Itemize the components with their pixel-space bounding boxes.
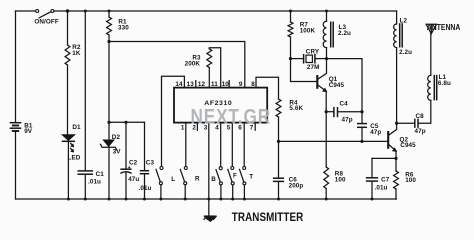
wire: pin 4 to switch SB — [220, 123, 222, 167]
switch SF (Forward) — [228, 167, 234, 200]
svg-text:47u: 47u — [128, 176, 139, 183]
junction dot top rail / R2 — [66, 9, 69, 12]
pin tick 13 — [195, 81, 197, 88]
junction dot bottom rail / C3 — [143, 198, 146, 201]
wire: secondary rail to pin 9 — [109, 42, 245, 88]
svg-text:TRANSMITTER: TRANSMITTER — [232, 211, 304, 224]
junction dot R7 / crystal — [289, 57, 292, 60]
svg-text:13: 13 — [187, 81, 195, 88]
junction dot D2 line / C2C3 wire — [107, 121, 110, 124]
wire: top supply rail left of switch — [16, 10, 36, 12]
wire: pin 5 to switch SF — [231, 123, 233, 167]
junction dot R1 / secondary rail — [107, 40, 110, 43]
svg-text:47p: 47p — [370, 129, 381, 136]
wire: pin 1 to switch SR — [185, 123, 187, 167]
svg-text:L2: L2 — [400, 18, 408, 25]
svg-text:2.2u: 2.2u — [399, 49, 412, 56]
pin 7 stub — [254, 123, 256, 131]
junction dot bottom rail / SB — [219, 198, 222, 201]
inductor L1 6.8u — [428, 75, 437, 101]
switch SR (Right) — [180, 167, 187, 200]
wire: R4 node to Q2 base — [279, 140, 389, 142]
wire: R7 node down to Q1 base — [291, 59, 318, 82]
resistor R7 100K — [288, 11, 293, 59]
resistor R3 200K on pin 12 — [207, 48, 221, 88]
svg-text:330: 330 — [118, 24, 129, 31]
pin 2 stub — [196, 123, 198, 131]
junction dot C2 top — [124, 121, 127, 124]
svg-text:100: 100 — [335, 177, 346, 184]
svg-text:9: 9 — [239, 81, 243, 88]
svg-text:27M: 27M — [307, 64, 320, 71]
junction dot top rail / R7 — [289, 10, 292, 13]
wire: crystal node to C5 — [327, 59, 363, 124]
svg-text:ANTENNA: ANTENNA — [427, 23, 461, 32]
svg-text:6.8u: 6.8u — [438, 80, 451, 87]
switch SB (Back) — [216, 167, 222, 199]
capacitor C6 200p — [273, 141, 284, 199]
junction dot Q2 emitter / R6 / C7 — [394, 157, 397, 160]
svg-text:47p: 47p — [342, 117, 353, 124]
crystal CRY 27M — [291, 54, 327, 64]
svg-text:.01u: .01u — [139, 185, 152, 192]
junction dot R4 / C6 / base wire — [277, 140, 280, 143]
ground symbol — [204, 199, 216, 222]
junction dot Q2 collector / C8 — [395, 122, 398, 125]
capacitor C5 47p — [357, 124, 367, 142]
svg-text:+: + — [128, 165, 131, 171]
svg-text:.01u: .01u — [88, 179, 101, 186]
junction dot crystal / L3 / Q1 collector — [325, 57, 328, 60]
svg-text:11: 11 — [211, 81, 218, 88]
resistor R8 100 — [324, 167, 329, 199]
switch SL (Left) — [156, 167, 163, 200]
pin tick 10 — [228, 81, 230, 88]
svg-text:LED: LED — [68, 155, 81, 162]
svg-text:1: 1 — [181, 124, 185, 131]
junction dot top rail / R1 — [108, 10, 111, 13]
svg-text:B: B — [211, 176, 216, 183]
junction dot C4 / x362 line — [360, 110, 363, 113]
svg-text:D2: D2 — [112, 134, 121, 141]
junction dot bottom rail / ST — [243, 198, 246, 201]
capacitor C3 .01u — [140, 122, 149, 199]
svg-text:C1: C1 — [96, 171, 105, 178]
switch S1 ON/OFF — [36, 10, 54, 18]
svg-text:R: R — [195, 175, 200, 182]
wire: D2 node to C2 and C3 — [109, 121, 145, 123]
svg-text:C3: C3 — [146, 160, 155, 167]
svg-text:14: 14 — [175, 81, 183, 88]
svg-text:47p: 47p — [415, 128, 426, 135]
svg-text:C4: C4 — [340, 101, 349, 108]
wire: Q2 emitter node — [372, 157, 396, 159]
svg-text:200p: 200p — [289, 182, 304, 189]
IC U1 AF2310 — [174, 88, 267, 123]
svg-text:D1: D1 — [72, 124, 81, 131]
svg-text:ON/OFF: ON/OFF — [34, 19, 58, 26]
inductor L2 2.2u — [394, 11, 403, 48]
capacitor C4 47p — [326, 107, 362, 117]
junction dot bottom rail / pin3 ground — [207, 198, 210, 201]
zener diode D2 3V — [100, 42, 116, 200]
wire: pin 14 bracket to switch SL — [162, 76, 185, 166]
svg-text:C945: C945 — [329, 82, 345, 89]
svg-text:T: T — [249, 173, 253, 180]
junction dot top rail / C1 — [84, 10, 87, 13]
wire: pin 8 bracket to R4 — [256, 77, 279, 99]
wire: pin 6 to switch ST — [243, 123, 245, 167]
svg-text:2.2u: 2.2u — [338, 30, 351, 37]
svg-text:9V: 9V — [24, 128, 33, 135]
junction dot bottom rail / D1 — [67, 198, 70, 201]
svg-text:CRY: CRY — [306, 49, 320, 56]
resistor R2 1K — [65, 11, 70, 134]
capacitor C7 .01u — [366, 158, 378, 199]
svg-text:F: F — [233, 172, 237, 179]
svg-text:1K: 1K — [72, 50, 81, 57]
junction dot bottom rail / C7 — [371, 198, 374, 201]
junction dot bottom rail / C2 — [125, 198, 128, 201]
svg-text:.01u: .01u — [375, 185, 388, 192]
junction dot top rail / L3 — [325, 10, 328, 13]
junction dot bottom rail / C6 — [277, 198, 280, 201]
svg-text:100: 100 — [405, 177, 416, 184]
wire: bottom ground rail — [16, 198, 397, 200]
wire: pin 3 to ground rail — [208, 123, 210, 199]
capacitor C1 .01u — [78, 11, 94, 199]
svg-text:12: 12 — [198, 81, 206, 88]
junction dot bottom rail / SR — [184, 198, 187, 201]
svg-text:3V: 3V — [113, 149, 122, 156]
wire: top supply rail from switch to L2 — [54, 10, 397, 12]
svg-text:8: 8 — [251, 81, 255, 88]
junction dot Q1 emitter / C4 — [325, 110, 328, 113]
svg-text:200K: 200K — [185, 61, 201, 68]
svg-text:C7: C7 — [381, 176, 390, 183]
svg-text:C8: C8 — [416, 113, 425, 120]
svg-text:10: 10 — [222, 81, 230, 88]
junction dot bottom rail / C1 — [84, 198, 87, 201]
resistor R6 100 — [394, 158, 399, 199]
svg-text:NEXT.GR: NEXT.GR — [191, 105, 272, 128]
battery B1 9V — [10, 11, 22, 199]
svg-text:L: L — [171, 176, 175, 183]
resistor R4 5.6K — [276, 99, 281, 141]
antenna — [426, 24, 436, 75]
transistor Q1 C945 — [317, 59, 327, 167]
LED D1 — [62, 135, 75, 199]
resistor R1 330 — [107, 11, 112, 42]
junction dot bottom rail / SF — [231, 198, 234, 201]
junction dot bottom rail / SL — [159, 198, 162, 201]
inductor L3 2.2u — [323, 11, 333, 59]
capacitor C2 47u (polarized) — [120, 122, 131, 199]
transistor Q2 C945 — [388, 48, 396, 159]
svg-text:5.6K: 5.6K — [289, 105, 303, 112]
junction dot C5 / base wire — [360, 140, 363, 143]
junction dot bottom rail / R8 — [325, 198, 328, 201]
junction dot bottom rail / D2 — [108, 198, 111, 201]
svg-text:100K: 100K — [300, 28, 316, 35]
svg-text:C945: C945 — [400, 142, 416, 149]
capacitor C8 47p — [397, 100, 431, 128]
switch ST (Turbo) — [240, 167, 246, 200]
